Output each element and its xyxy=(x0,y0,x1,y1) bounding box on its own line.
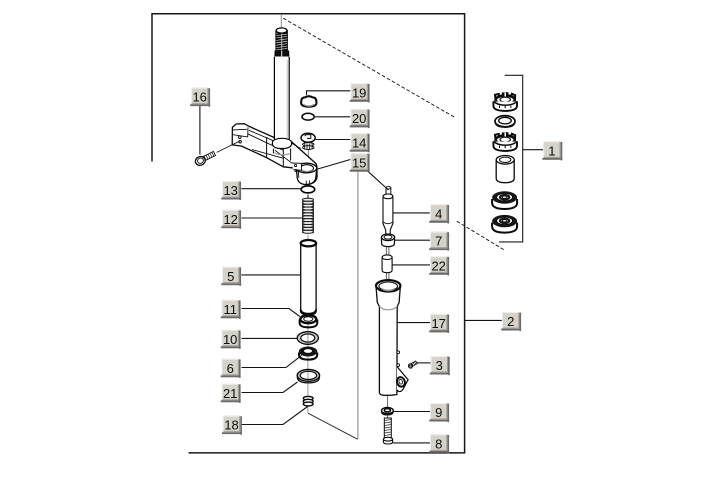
leader 16 xyxy=(199,106,201,155)
washer 9 xyxy=(382,408,394,415)
bearing (upper) xyxy=(492,191,517,209)
triple clamp beam xyxy=(232,124,317,185)
label 15 xyxy=(350,153,370,172)
leader 14 xyxy=(315,139,350,141)
svg-text:16: 16 xyxy=(192,90,206,105)
label 22 xyxy=(429,256,449,275)
svg-text:8: 8 xyxy=(435,436,442,451)
clamp right boss xyxy=(292,163,317,185)
small circles on right edge xyxy=(397,351,400,354)
svg-text:10: 10 xyxy=(223,332,237,347)
ring 20 xyxy=(302,113,314,120)
label 5 xyxy=(221,267,241,286)
label 8 xyxy=(429,434,449,453)
beam inner diagonals xyxy=(249,130,274,141)
label 3 xyxy=(430,356,450,375)
dashed projection line B (lower) xyxy=(457,221,504,250)
beam creases xyxy=(266,137,268,158)
leader 1 xyxy=(523,149,544,151)
svg-text:7: 7 xyxy=(435,234,442,249)
label 2 xyxy=(501,312,521,331)
head below collar xyxy=(272,149,274,154)
leader 18 xyxy=(242,407,308,425)
leader 15 to damper rod xyxy=(367,170,389,190)
bracket for label 1 xyxy=(499,75,523,242)
gray vertical line from label 15 down xyxy=(357,170,359,439)
leader 3 xyxy=(416,362,430,364)
label 6 xyxy=(221,359,241,378)
o-ring 13 xyxy=(301,186,315,193)
label 11 xyxy=(221,300,241,319)
leader 12 xyxy=(242,217,303,219)
label 12 xyxy=(221,210,241,229)
gray centerline through left part column xyxy=(307,171,309,413)
leader 9 xyxy=(393,411,430,413)
lug right edge xyxy=(247,127,249,137)
axle bracket xyxy=(397,367,408,392)
leader 7 xyxy=(395,239,431,241)
cap 19 xyxy=(301,96,316,107)
steering stem tube xyxy=(274,57,289,148)
dashed projection line A (stem top to bearing detail) xyxy=(283,18,455,117)
svg-text:21: 21 xyxy=(223,386,237,401)
label 21 xyxy=(221,384,241,403)
svg-text:6: 6 xyxy=(227,361,234,376)
pin between 7 and 22 xyxy=(386,246,389,282)
bolt 8 xyxy=(383,418,392,444)
leader 8 xyxy=(393,442,431,444)
svg-text:1: 1 xyxy=(548,143,555,158)
leader 5 xyxy=(242,274,301,276)
cap body xyxy=(376,286,400,396)
svg-text:19: 19 xyxy=(352,85,366,100)
label 16 xyxy=(190,88,210,107)
leader 6 xyxy=(242,355,302,367)
frame border (broken rectangle) xyxy=(152,14,465,453)
castle nut (part 1 group, top) xyxy=(493,93,517,111)
stem collar xyxy=(272,138,291,160)
lug top face inner edge xyxy=(233,128,247,131)
svg-text:22: 22 xyxy=(431,258,445,273)
label 1 xyxy=(542,141,562,160)
spacer 22 xyxy=(382,255,392,273)
label 9 xyxy=(429,403,449,422)
label 7 xyxy=(429,232,449,251)
leader 13 xyxy=(242,188,302,190)
svg-text:17: 17 xyxy=(431,316,445,331)
leader 17 xyxy=(397,322,430,324)
leader 20 xyxy=(314,116,350,118)
svg-text:15: 15 xyxy=(352,155,366,170)
break diagonal to bottom of column xyxy=(308,413,358,439)
label 14 xyxy=(350,133,370,152)
spring 12 xyxy=(302,195,313,235)
label 10 xyxy=(221,330,241,349)
svg-text:13: 13 xyxy=(223,183,237,198)
leader 10 xyxy=(242,337,298,339)
castle nut (part 1 group, second) xyxy=(493,133,517,151)
leader from bolt 16 to clamp xyxy=(217,140,242,152)
label 20 xyxy=(350,109,370,128)
svg-text:2: 2 xyxy=(507,314,514,329)
bushing 11 xyxy=(300,315,318,327)
svg-text:18: 18 xyxy=(224,418,238,433)
nut 14 xyxy=(301,133,315,149)
svg-text:5: 5 xyxy=(227,269,234,284)
cap top rim xyxy=(376,280,400,291)
label 13 xyxy=(221,181,241,200)
spacer tube xyxy=(496,156,514,183)
svg-text:9: 9 xyxy=(435,405,442,420)
shoulder xyxy=(379,307,397,310)
leader 19 xyxy=(307,91,351,95)
label 17 xyxy=(429,314,449,333)
gray centerline right column xyxy=(387,275,389,291)
screw 3 xyxy=(408,361,418,369)
boss pinch plate xyxy=(292,163,302,170)
bearing (lower) xyxy=(492,215,517,233)
label 19 xyxy=(350,83,370,102)
svg-text:4: 4 xyxy=(435,206,442,221)
oil seal 6 xyxy=(299,346,318,359)
leader 22 xyxy=(392,264,430,266)
damper rod 4 xyxy=(383,187,393,235)
leader 2 xyxy=(465,319,502,321)
washer ring under castle nut xyxy=(495,116,515,128)
svg-text:20: 20 xyxy=(352,111,366,126)
leader 15 to clamp boss xyxy=(316,160,350,170)
bushing cup 7 xyxy=(381,234,394,247)
svg-text:14: 14 xyxy=(352,135,366,150)
svg-text:11: 11 xyxy=(223,302,237,317)
leader 4 xyxy=(393,212,430,214)
label 4 xyxy=(429,204,449,223)
svg-text:12: 12 xyxy=(223,212,237,227)
ring 10 xyxy=(297,332,318,345)
lug front crease xyxy=(232,135,247,137)
svg-text:3: 3 xyxy=(436,358,443,373)
leader 21 xyxy=(242,382,298,393)
gray centerline stem top tick xyxy=(280,14,282,32)
label 18 xyxy=(222,416,242,435)
lug front bolt hole circles xyxy=(239,136,242,139)
dust seal 21 xyxy=(297,370,319,383)
small bushing 18 xyxy=(303,396,313,406)
leader 11 xyxy=(242,309,300,317)
steering stem threaded top xyxy=(275,28,289,59)
inner tube 5 xyxy=(301,240,316,315)
